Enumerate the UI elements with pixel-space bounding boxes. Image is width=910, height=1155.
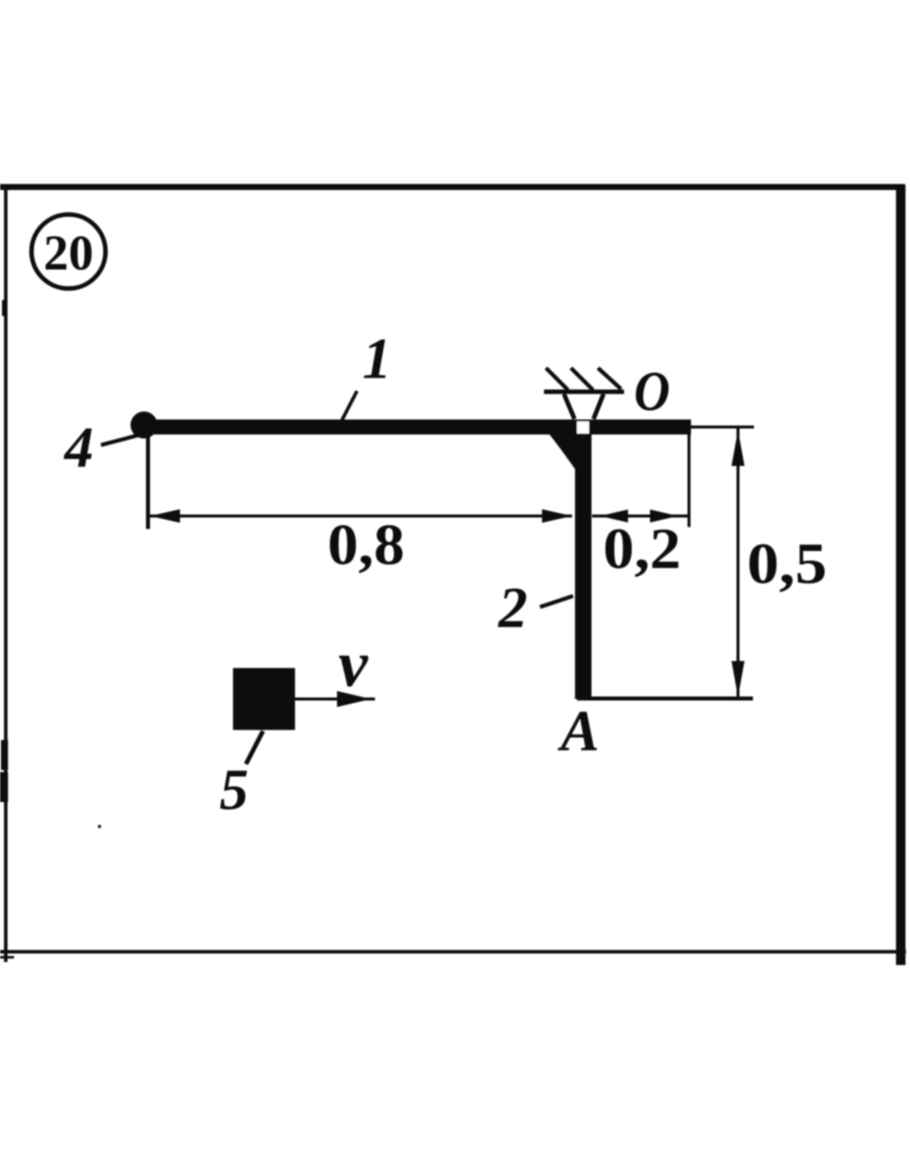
bar 2 (vertical rod) xyxy=(575,430,592,699)
velocity arrow head xyxy=(337,691,371,707)
support pin right leg xyxy=(594,394,604,419)
dimension 0,5 line xyxy=(737,428,740,698)
svg-text:0,5: 0,5 xyxy=(747,531,827,596)
leader tick to label 4 xyxy=(101,435,141,446)
support pin left leg xyxy=(564,394,575,419)
frame border left xyxy=(4,186,8,962)
frame border right xyxy=(896,185,906,965)
svg-text:5: 5 xyxy=(220,757,249,822)
leader tick to label 2 xyxy=(540,596,573,607)
pivot O (white hole) xyxy=(577,422,589,434)
dimension 0,5 bottom arrow xyxy=(732,661,745,697)
dimension 0,8 right arrow xyxy=(542,509,572,522)
scan dot artifact xyxy=(98,825,101,828)
dimension 0,2 left arrow xyxy=(600,510,628,523)
dimension 0,2 right arrow xyxy=(650,510,678,523)
support hatch stroke 3 xyxy=(598,368,621,389)
svg-text:20: 20 xyxy=(44,224,94,280)
node A extension line (bottom) xyxy=(577,697,753,701)
svg-text:O: O xyxy=(634,361,670,423)
dimension 0,5 top arrow xyxy=(732,430,745,466)
dimension 0,2 line xyxy=(592,515,690,518)
svg-text:A: A xyxy=(558,698,600,763)
left border scan blob xyxy=(0,300,14,959)
problem number circle 20 xyxy=(32,215,106,289)
block 5 (square mass) xyxy=(233,668,295,730)
dimension 0,8 extension line left xyxy=(146,436,150,529)
dimension 0,5 extension line top xyxy=(691,426,754,429)
frame border top xyxy=(0,184,905,190)
bar 1 (horizontal rod) xyxy=(138,420,691,435)
svg-text:2: 2 xyxy=(498,575,528,640)
svg-text:4: 4 xyxy=(64,415,94,480)
svg-text:1: 1 xyxy=(363,326,392,391)
dimension 0,2 extension line right xyxy=(688,434,691,527)
support hatching baseline xyxy=(544,390,624,395)
support hatch stroke 2 xyxy=(571,368,593,390)
dimension 0,8 left arrow xyxy=(150,509,180,522)
support hatch stroke 1 xyxy=(546,368,568,390)
svg-text:0,2: 0,2 xyxy=(603,516,681,581)
leader tick to label 5 xyxy=(246,731,263,764)
ball 4 (end mass) xyxy=(131,412,158,439)
frame border bottom xyxy=(0,950,906,954)
velocity arrow shaft xyxy=(295,698,375,701)
corner fillet of bar 2 xyxy=(549,434,575,469)
leader tick to label 1 xyxy=(342,391,357,420)
dimension 0,8 line xyxy=(148,515,572,518)
svg-text:0,8: 0,8 xyxy=(328,512,405,577)
svg-text:v: v xyxy=(338,628,368,701)
